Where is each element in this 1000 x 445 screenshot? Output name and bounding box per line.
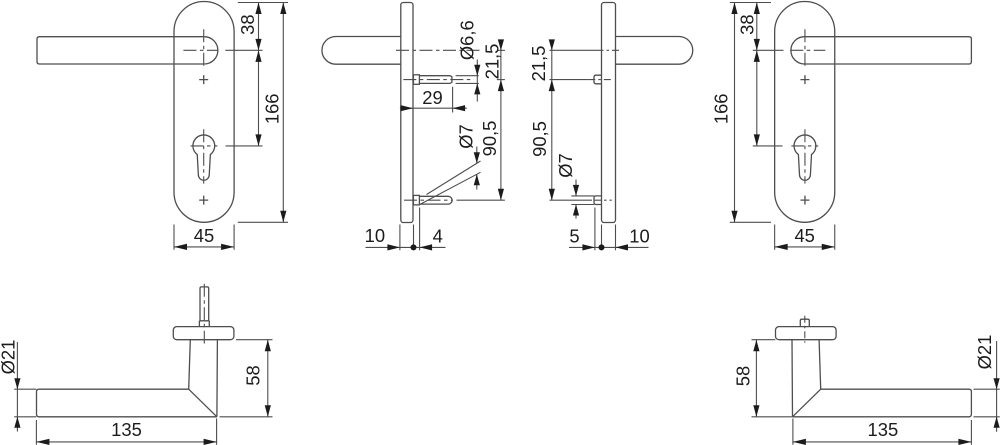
extension line keyhole axis view 1 [226, 145, 263, 147]
dimension line dia 21 view 5 [16, 342, 18, 432]
lower screw shaft view 2 [419, 196, 452, 204]
arrow left 4 view 2 [420, 244, 433, 250]
arrow down dia21 top view 5 [14, 378, 20, 389]
lower screw centerline dashes view 3 [594, 199, 612, 201]
dimension line 58 view 6 [755, 340, 757, 417]
neck right edge view 6 [819, 340, 821, 390]
svg-text:10: 10 [629, 225, 649, 246]
arrow down 166 bottom view 4 [731, 211, 737, 223]
lower counterbore view 3 [594, 196, 602, 205]
arrow up 72 top view 1 [255, 50, 261, 62]
tick handle axis view 2 [497, 49, 505, 51]
svg-text:45: 45 [794, 225, 814, 246]
upper screw centerline view 2 [403, 79, 474, 81]
spindle centerline view 5 [203, 284, 205, 344]
extension lines 5 and 10 view 3 [595, 208, 616, 251]
grip bar view 5 [37, 389, 217, 417]
arrow down 72 bottom view 4 [754, 134, 760, 146]
extension line plate bottom view 1 [238, 221, 288, 223]
centerline keyhole vertical view 4 [804, 129, 806, 183]
svg-text:Ø21: Ø21 [974, 335, 995, 370]
arrow right 45 view 4 [822, 244, 835, 250]
arrow up 58 top view 5 [265, 340, 271, 352]
svg-text:38: 38 [237, 14, 258, 34]
arrow right 10 view 2 [387, 244, 400, 250]
grip bar view 6 [793, 389, 972, 417]
lever handle cap arc view 1 [204, 37, 218, 64]
stub centerline view 6 [804, 316, 806, 343]
arrow down dia7 top view 2 [474, 152, 480, 163]
arrow down dia21 top view 6 [994, 378, 1000, 389]
arrow down 38 bottom view 1 [255, 39, 261, 51]
arrow right 5 view 3 [582, 244, 595, 250]
upper counterbore view 3 [594, 75, 602, 84]
extension lines 135 view 5 [36, 419, 216, 445]
arrow up dia21 bottom view 6 [994, 417, 1000, 428]
arrow left 45 view 1 [174, 244, 187, 250]
plate (stadium shape) view 4 [775, 2, 835, 223]
screw cross upper view 1 [199, 75, 208, 84]
extension lines 58 view 6 [752, 340, 793, 417]
arrow right 29 left view 2 [401, 105, 414, 111]
extension line plate top view 1 [238, 2, 288, 4]
arrow down dia6.6 view 2 [474, 65, 480, 76]
arrow down 58 bottom view 5 [265, 405, 271, 417]
dimension line 29 view 2 [400, 107, 467, 109]
arrow up 166 top view 4 [731, 3, 737, 15]
extension line plate top view 4 [730, 2, 771, 4]
dimension line 38 and 72 view 1 [258, 3, 260, 146]
arrow up dia21 bottom view 5 [14, 417, 20, 428]
arrow down 21.5 top view 2 [498, 39, 504, 50]
dimension line dia 21 view 6 [996, 341, 998, 432]
dimension line 58 view 5 [267, 340, 269, 417]
svg-text:45: 45 [194, 225, 214, 246]
extension line handle axis view 1 [225, 49, 262, 51]
dot shared 10-4 view 2 [411, 244, 417, 250]
dimension line 5 and 10 view 3 [569, 246, 649, 248]
tick upper screw axis view 2 [497, 79, 505, 81]
arrow up dia6.6 view 2 [474, 83, 480, 94]
plate strip profile view 3 [602, 3, 616, 223]
svg-text:166: 166 [261, 93, 282, 124]
extension lines 135 view 6 [793, 419, 972, 445]
upper screw centerline dashes view 3 [588, 79, 613, 81]
centerline handle vertical view 4 [804, 29, 806, 66]
lower screw centerline view 2 [404, 199, 453, 201]
arrow left 135 view 6 [793, 439, 806, 445]
arrow down dia7 top view 3 [573, 185, 579, 196]
arrow down 72 bottom view 1 [255, 134, 261, 146]
svg-text:Ø7: Ø7 [456, 124, 477, 149]
svg-text:90,5: 90,5 [479, 121, 500, 157]
arrow down 90.5 bottom view 3 [549, 189, 555, 201]
centerline keyhole horizontal view 4 [791, 145, 818, 147]
lever handle cap arc view 4 [791, 37, 805, 64]
neck left edge view 6 [791, 340, 794, 417]
svg-text:58: 58 [243, 365, 264, 385]
centerline handle horizontal view 1 [183, 49, 218, 51]
centerline keyhole vertical view 1 [203, 129, 205, 183]
dimension line 45 view 1 [174, 246, 234, 248]
dia 7 dimension line segments view 3 [575, 180, 577, 219]
plate (stadium shape) view 1 [174, 2, 234, 223]
svg-text:90,5: 90,5 [529, 121, 550, 157]
upper screw shaft view 2 [419, 76, 452, 84]
dimension line 38 and 72 view 4 [756, 3, 758, 146]
dimension line 45 view 4 [775, 246, 835, 248]
lower screw axis extension solid view 3 [550, 199, 593, 201]
spindle shaft view 5 [200, 287, 209, 321]
arrow down 58 bottom view 6 [753, 405, 759, 417]
arrow up 21.5 bottom view 3 [549, 80, 555, 92]
arrow right 135 view 5 [204, 439, 217, 445]
extension lines 45 view 1 [174, 225, 234, 250]
svg-text:21,5: 21,5 [528, 46, 549, 82]
lever handle profile view 2 [322, 37, 401, 65]
plate strip profile view 2 [401, 3, 413, 223]
dimension line 21.5 and 90.5 view 3 [551, 43, 553, 201]
arrow down 166 bottom view 1 [280, 211, 286, 223]
arrow up dia7 bottom view 3 [573, 205, 579, 216]
centerline handle horizontal view 4 [790, 49, 825, 51]
upper screw axis extension solid view 3 [550, 79, 589, 81]
svg-text:Ø6,6: Ø6,6 [456, 20, 477, 60]
dimension line dia 6.6 view 2 [476, 60, 478, 102]
extension lines 58 view 5 [220, 340, 273, 417]
dia 7 tangent leader lines view 2 [420, 161, 481, 205]
extension lines 45 view 4 [775, 225, 835, 250]
svg-text:135: 135 [111, 419, 142, 440]
arrow up 21.5 bottom view 2 [498, 80, 504, 92]
extension lines 10 and 4 view 2 [400, 208, 420, 251]
arrow up 38 top view 1 [255, 3, 261, 15]
arrow up 58 top view 6 [753, 340, 759, 352]
dimension line 135 view 6 [793, 441, 972, 443]
svg-text:166: 166 [711, 93, 732, 124]
rose flange view 6 [776, 327, 837, 340]
extension lines dia 6.6 view 2 [456, 76, 479, 84]
lever handle bar view 1 [37, 37, 204, 64]
handle centerline dashes view 3 [597, 49, 621, 51]
svg-text:4: 4 [433, 225, 443, 246]
extension line plate bottom view 4 [730, 221, 771, 223]
screw cross lower view 4 [800, 196, 809, 205]
dia 7 dimension line segments view 2 [476, 147, 478, 190]
dot shared 5-10 view 3 [599, 244, 605, 250]
centerline handle vertical view 1 [203, 29, 205, 66]
dimension line 135 view 5 [36, 441, 216, 443]
handle centerline view 2 [396, 49, 482, 51]
svg-text:5: 5 [569, 225, 579, 246]
svg-text:Ø7: Ø7 [555, 153, 576, 178]
arrow up dia7 bottom view 2 [474, 174, 480, 185]
arrow up 72 top view 4 [754, 50, 760, 62]
extension line lower screw axis view 2 [457, 199, 505, 201]
screw cross lower view 1 [199, 196, 208, 205]
svg-text:Ø21: Ø21 [0, 340, 19, 375]
spindle base view 5 [199, 321, 209, 327]
miter joint diagonal view 6 [793, 389, 821, 417]
dimension line 21.5 and 90.5 view 2 [500, 43, 502, 201]
arrow right 135 view 6 [958, 439, 971, 445]
arrow left 29 right view 2 [453, 105, 466, 111]
lever handle bar view 4 [805, 37, 972, 64]
spindle stub view 6 [800, 319, 809, 326]
centerline keyhole horizontal view 1 [191, 145, 218, 147]
lever handle profile view 3 [616, 37, 693, 65]
svg-text:29: 29 [422, 87, 442, 108]
svg-text:38: 38 [736, 14, 757, 34]
dimension line 10 and 4 view 2 [366, 246, 446, 248]
neck right edge view 5 [216, 340, 219, 417]
extension lines dia 21 view 5 [14, 389, 36, 417]
arrow up 166 top view 1 [280, 3, 286, 15]
svg-text:135: 135 [868, 419, 899, 440]
miter joint diagonal view 5 [189, 389, 217, 417]
arrow left 10 view 3 [616, 244, 629, 250]
extension line handle axis view 4 [753, 49, 784, 51]
rose flange view 5 [173, 327, 234, 340]
euro profile keyhole view 1 [193, 135, 215, 180]
svg-text:10: 10 [365, 225, 385, 246]
arrow left 45 view 4 [775, 244, 788, 250]
arrow down 90.5 bottom view 2 [498, 189, 504, 201]
arrow up 38 top view 4 [754, 3, 760, 15]
svg-text:58: 58 [733, 366, 754, 386]
arrow left 135 view 5 [36, 439, 49, 445]
neck left edge view 5 [189, 340, 191, 390]
arrow right 45 view 1 [221, 244, 234, 250]
euro profile keyhole view 4 [794, 135, 816, 180]
arrow down 38 bottom view 4 [754, 39, 760, 51]
lower screw head view 2 [413, 195, 419, 205]
arrow down 21.5 top view 3 [549, 39, 555, 50]
extension line keyhole axis view 4 [753, 145, 783, 147]
extension line 29 view 2 [452, 87, 454, 113]
handle axis extension solid view 3 [550, 49, 597, 51]
upper screw head view 2 [413, 75, 419, 85]
extension lines dia 21 view 6 [974, 389, 1000, 417]
extension lines dia 7 view 3 [571, 196, 594, 205]
dimension line 166 view 4 [734, 3, 736, 223]
screw cross upper view 4 [800, 75, 809, 84]
dimension line 166 view 1 [282, 3, 284, 223]
svg-text:21,5: 21,5 [482, 44, 503, 80]
